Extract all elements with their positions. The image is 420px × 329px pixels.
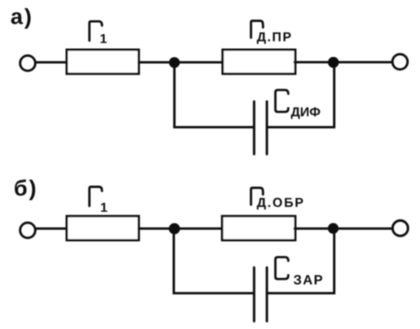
wire C1 right plate to node B xyxy=(268,63,334,127)
wire R2 to X2 through node B xyxy=(295,61,392,63)
capacitor C1 left plate xyxy=(253,102,255,155)
capacitor C2 left plate xyxy=(253,268,255,322)
node D (bottom-right junction dot) xyxy=(328,223,339,234)
wire node A down and right to C1 left plate xyxy=(174,63,253,127)
wire R3 to R4 through node C xyxy=(139,227,223,229)
value label r1 (bottom) xyxy=(89,187,107,212)
value label C ЗАР xyxy=(275,257,322,284)
wire node C down and right to C2 left plate xyxy=(174,229,253,293)
terminal X4 (bottom-right open circle) xyxy=(393,221,408,236)
wire R4 to X4 through node D xyxy=(295,227,392,229)
resistor R4 (bottom, r Д.ОБР) xyxy=(222,216,295,240)
terminal X1 (top-left open circle) xyxy=(20,56,35,71)
capacitor C1 right plate xyxy=(266,102,268,155)
terminal X3 (bottom-left open circle) xyxy=(20,223,35,238)
wire C2 right plate to node D xyxy=(268,229,334,293)
resistor R3 (bottom, r1) xyxy=(67,216,139,240)
node B (top-right junction dot) xyxy=(328,57,339,68)
label а) xyxy=(11,8,31,29)
capacitor C2 right plate xyxy=(266,268,268,322)
resistor R1 (top, r1) xyxy=(67,50,139,74)
wire X1 to R1 xyxy=(36,61,67,63)
node C (bottom-left junction dot) xyxy=(169,223,180,234)
value label r Д.ПР xyxy=(251,21,291,44)
label б) xyxy=(15,179,35,200)
value label C ДИФ xyxy=(275,90,320,119)
wire X3 to R3 xyxy=(36,227,67,229)
wire R1 to R2 through node A xyxy=(139,61,223,63)
resistor R2 (top, r Д.ПР) xyxy=(223,50,296,74)
terminal X2 (top-right open circle) xyxy=(392,54,407,69)
value label r Д.ОБР xyxy=(251,188,303,210)
node A (top-left junction dot) xyxy=(169,57,180,68)
value label r1 (top) xyxy=(89,21,106,43)
